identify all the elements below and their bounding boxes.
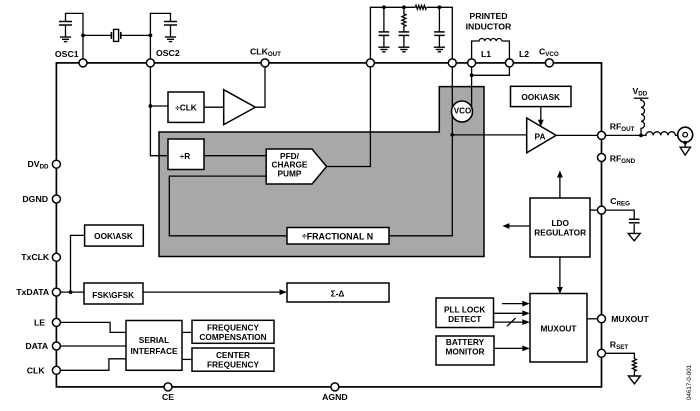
svg-text:CLK: CLK bbox=[27, 365, 46, 375]
svg-text:PA: PA bbox=[535, 131, 546, 141]
svg-text:RFGND: RFGND bbox=[610, 154, 636, 166]
svg-text:FSK\GFSK: FSK\GFSK bbox=[92, 290, 134, 300]
svg-text:COMPENSATION: COMPENSATION bbox=[199, 332, 266, 342]
svg-text:SERIAL: SERIAL bbox=[139, 335, 169, 345]
svg-text:MUXOUT: MUXOUT bbox=[611, 314, 649, 324]
svg-text:RSET: RSET bbox=[610, 339, 629, 351]
svg-text:VDD: VDD bbox=[633, 86, 648, 98]
svg-text:÷FRACTIONAL N: ÷FRACTIONAL N bbox=[302, 231, 373, 241]
svg-text:PUMP: PUMP bbox=[278, 168, 302, 178]
svg-text:L2: L2 bbox=[519, 49, 529, 59]
svg-text:CE: CE bbox=[162, 392, 174, 402]
svg-text:TxCLK: TxCLK bbox=[21, 252, 50, 262]
svg-text:LDO: LDO bbox=[551, 218, 569, 228]
svg-text:DVDD: DVDD bbox=[27, 159, 49, 171]
svg-text:AGND: AGND bbox=[322, 392, 348, 402]
svg-text:÷R: ÷R bbox=[180, 151, 191, 161]
svg-text:LE: LE bbox=[34, 317, 45, 327]
svg-text:OOK\ASK: OOK\ASK bbox=[521, 92, 560, 102]
svg-text:OOK\ASK: OOK\ASK bbox=[94, 231, 133, 241]
svg-text:Σ-Δ: Σ-Δ bbox=[331, 289, 345, 299]
svg-text:CENTER: CENTER bbox=[216, 350, 250, 360]
svg-text:PRINTED: PRINTED bbox=[469, 11, 507, 21]
svg-text:MUXOUT: MUXOUT bbox=[541, 323, 577, 333]
svg-text:INDUCTOR: INDUCTOR bbox=[466, 22, 512, 32]
svg-text:REGULATOR: REGULATOR bbox=[534, 228, 586, 238]
svg-text:PLL LOCK: PLL LOCK bbox=[444, 305, 485, 315]
svg-text:RFOUT: RFOUT bbox=[610, 121, 635, 133]
svg-text:÷CLK: ÷CLK bbox=[175, 103, 197, 113]
svg-text:DATA: DATA bbox=[25, 341, 49, 351]
svg-text:CLKOUT: CLKOUT bbox=[250, 47, 281, 59]
svg-text:DETECT: DETECT bbox=[448, 314, 481, 324]
svg-text:TxDATA: TxDATA bbox=[16, 287, 50, 297]
svg-text:FREQUENCY: FREQUENCY bbox=[207, 360, 260, 370]
svg-text:INTERFACE: INTERFACE bbox=[130, 346, 177, 356]
svg-text:MONITOR: MONITOR bbox=[445, 346, 484, 356]
svg-text:OSC2: OSC2 bbox=[156, 48, 180, 58]
svg-text:L1: L1 bbox=[481, 49, 491, 59]
svg-text:OSC1: OSC1 bbox=[55, 49, 79, 59]
svg-text:04617-0-001: 04617-0-001 bbox=[686, 364, 693, 400]
svg-text:VCO: VCO bbox=[454, 107, 472, 116]
svg-text:CVCO: CVCO bbox=[539, 47, 559, 59]
svg-text:CREG: CREG bbox=[610, 196, 630, 208]
svg-text:DGND: DGND bbox=[22, 194, 48, 204]
